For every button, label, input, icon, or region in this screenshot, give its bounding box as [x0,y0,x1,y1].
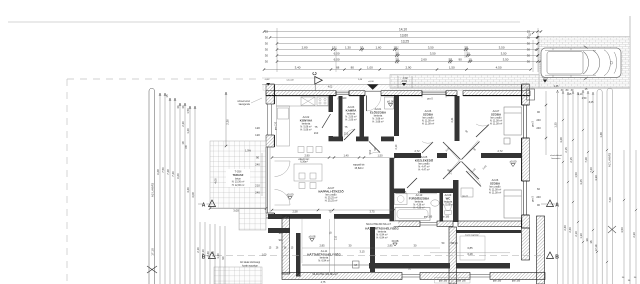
svg-text:N: 1,06 m²: N: 1,06 m² [442,204,453,207]
svg-text:240: 240 [255,163,260,167]
sidewalk paving strip [390,75,539,88]
entrance threshold [365,91,381,93]
section line A stub [198,203,214,205]
svg-text:6,60: 6,60 [176,173,180,179]
level marker entrance [388,104,392,107]
svg-text:6,36m²: 6,36m² [300,161,308,164]
svg-text:30: 30 [265,36,269,40]
svg-text:3,08: 3,08 [191,192,195,198]
svg-text:1,30: 1,30 [345,46,351,50]
svg-text:2,10: 2,10 [201,249,205,255]
property boundary dashed vertical [66,79,68,284]
entrance door leaf and swing [366,96,368,112]
svg-text:17,10: 17,10 [594,244,598,251]
wing partition vertical 1 [296,233,301,277]
svg-text:2,90: 2,90 [405,66,411,70]
svg-text:7,28: 7,28 [584,157,588,163]
svg-text:68: 68 [184,145,188,149]
svg-text:±0,08: ±0,08 [309,234,316,238]
svg-text:1,50: 1,50 [377,153,383,157]
svg-text:2,30: 2,30 [632,232,636,238]
svg-text:pan 180: pan 180 [493,281,502,283]
svg-text:2,10: 2,10 [196,247,200,253]
washbasin bathroom [431,200,439,206]
svg-text:2,72: 2,72 [414,149,420,153]
pre0 window inner ticks top [421,96,423,98]
car body [541,46,621,80]
svg-text:T-03/I: T-03/I [235,170,242,174]
wall kamra west [339,96,343,141]
svg-text:H: 3,68 m²: H: 3,68 m² [372,121,383,124]
level marker wing2 [393,243,397,246]
wing partition vertical 3 hatched [449,227,457,284]
svg-text:7,28: 7,28 [608,197,612,203]
kitchen stove [317,97,328,106]
right cluster ticks [562,161,564,163]
svg-text:90: 90 [459,58,463,62]
svg-text:A2 LAKÁS: A2 LAKÁS [150,183,154,197]
property boundary dashed horizontal [67,78,262,80]
bottom rooms pan labels [435,278,452,284]
svg-text:2,41: 2,41 [451,117,454,122]
wall between top bedrooms [455,96,460,141]
right cluster balloon caps [597,89,602,284]
hub door X leaves [443,142,461,160]
svg-text:3,50: 3,50 [501,52,507,56]
svg-text:1,35: 1,35 [554,85,559,88]
svg-text:1,20: 1,20 [186,128,190,134]
svg-text:A: A [202,203,206,209]
svg-text:3,25: 3,25 [579,179,583,185]
bath dim row [396,193,437,195]
top dimension chain row4 [277,49,536,51]
wing west step walls [268,214,282,219]
svg-text:30: 30 [265,42,269,46]
svg-text:pre 0: pre 0 [462,195,468,198]
svg-text:2,72: 2,72 [497,149,503,153]
svg-text:120: 120 [255,126,260,130]
terrace bottom dim line [210,208,266,210]
level marker -0.02 parking [543,80,547,83]
svg-text:sávszél: sávszél [286,79,294,81]
inner right dim line [545,91,547,155]
right wall lower continuation [522,228,530,260]
fridge [278,108,289,119]
svg-text:14,10: 14,10 [399,28,407,32]
svg-text:pan 180: pan 180 [441,217,450,219]
level marker wing1 [310,239,314,242]
left dim vertical lines [159,93,161,284]
door leaf bottom szoba [466,171,481,187]
top dimension chain 13.25 [277,43,538,45]
svg-text:1,35: 1,35 [554,122,558,128]
level marker -0.02 left [402,83,406,86]
svg-text:10: 10 [468,58,472,62]
svg-text:H: 11,38 m²: H: 11,38 m² [490,123,503,126]
right dim outer lines [623,150,625,284]
entrance arrow [367,84,379,90]
svg-text:210: 210 [335,235,338,240]
door konyha leaf [322,114,331,128]
inner dim line 2.36 [225,92,227,146]
left dim X mark [147,266,157,273]
wall eloszoba-szoba [394,96,399,136]
outer wall right band [522,84,530,105]
svg-text:AC lakás közösségi: AC lakás közösségi [240,261,261,264]
svg-text:15,82m²: 15,82m² [354,167,363,170]
svg-text:36: 36 [176,105,180,109]
dining chairs top row [298,147,304,153]
svg-text:2,40: 2,40 [206,251,210,257]
left dim balloon band [149,88,155,284]
level marker right wall [511,164,515,167]
dim ticks above entrance [397,76,399,88]
svg-text:B: B [555,255,559,261]
svg-text:-0,02: -0,02 [402,77,408,80]
svg-text:H: 11,38 m²: H: 11,38 m² [489,192,502,195]
wing inner south wall [369,263,450,269]
svg-text:szüvet konci: szüvet konci [237,100,250,103]
svg-text:1,50: 1,50 [574,172,578,178]
svg-text:N: 6,94 m²: N: 6,94 m² [318,260,329,263]
terrace door slide [265,147,267,213]
parking paving bricks [539,37,630,88]
svg-text:2,10: 2,10 [574,231,578,237]
corridor guide lines [393,158,395,188]
svg-text:1,30: 1,30 [579,233,583,239]
svg-text:4,00: 4,00 [214,178,218,184]
svg-text:15: 15 [265,30,269,34]
svg-text:kivezetés: kivezetés [551,157,561,160]
kitchen counter top [277,96,329,106]
svg-text:2,80: 2,80 [302,46,308,50]
terrace door left wall [267,147,269,213]
svg-text:30: 30 [527,60,531,64]
svg-text:3,15: 3,15 [359,250,365,254]
wing outer south wall hatched [282,273,402,280]
svg-text:7,20: 7,20 [171,171,175,177]
svg-text:3,40: 3,40 [295,66,301,70]
svg-text:30: 30 [527,54,531,58]
svg-text:H: 11,38 m²: H: 11,38 m² [422,123,435,126]
paving curb line [390,87,630,89]
svg-text:pan 180: pan 180 [424,217,433,219]
svg-text:2,90: 2,90 [304,153,310,157]
svg-text:±0,00: ±0,00 [510,159,517,163]
svg-text:210: 210 [255,184,260,188]
wing interior lines [301,219,303,263]
insulation strip above top wall [263,85,530,90]
svg-text:30: 30 [265,60,269,64]
svg-text:7,20: 7,20 [589,167,593,173]
svg-text:SILKA HML300 NF+GT: SILKA HML300 NF+GT [366,223,391,226]
svg-text:1,50: 1,50 [186,108,190,114]
svg-text:2,40: 2,40 [568,227,572,233]
outer wall top band [266,91,336,96]
svg-text:2,15: 2,15 [564,147,568,153]
wall hub east to right wall [481,153,522,158]
svg-text:kavégende: kavégende [239,104,251,106]
svg-text:pro 0: pro 0 [532,121,535,127]
svg-text:3,50: 3,50 [620,227,624,233]
svg-text:4,50: 4,50 [496,66,502,70]
dresser szoba2 [461,188,473,197]
svg-text:AZ LAKÁS: AZ LAKÁS [608,153,612,167]
corner level marker [267,83,270,86]
bed szoba2 [504,190,522,218]
svg-text:1,40: 1,40 [343,153,349,157]
dining table [294,164,322,181]
svg-text:13,25: 13,25 [401,40,409,44]
svg-text:80: 80 [351,66,355,70]
wing door frame lines [329,219,331,272]
wing partition vertical 2 [370,227,375,272]
top dimension chain row7 [264,69,531,71]
door szoba1 swing [422,142,433,153]
level marker terrace vicinity [288,197,292,200]
terrace grid paving [210,141,266,208]
svg-text:6,85: 6,85 [467,246,473,250]
svg-text:30: 30 [585,238,589,241]
svg-text:1,60: 1,60 [376,46,382,50]
terrace door leaves arcs [275,161,291,177]
wall szoba south / hub west [394,153,421,158]
nightstand szoba1 [504,138,510,144]
dining chairs bottom row [299,183,305,189]
svg-text:SILKA HML 300 NF+GT: SILKA HML 300 NF+GT [312,273,338,276]
svg-text:36: 36 [181,105,185,109]
wall hub-szoba2 vertical [453,180,459,222]
svg-text:1,5%: 1,5% [245,149,252,153]
svg-text:240: 240 [536,126,541,130]
wall kamra-eloszoba [360,96,365,141]
silka wall note 1 [359,221,398,226]
svg-text:-0,02: -0,02 [265,79,271,81]
svg-text:1,00: 1,00 [262,254,267,257]
outer wall left band [266,84,274,104]
wc toilet [445,202,451,210]
svg-text:90: 90 [256,156,260,160]
svg-text:240: 240 [255,191,260,195]
svg-text:pre 120: pre 120 [275,121,278,130]
svg-text:2,30: 2,30 [181,121,185,127]
section line B dashed [204,255,545,257]
svg-text:kazán egysége: kazán egysége [242,265,258,267]
living room south wall [268,214,321,219]
svg-text:3,28: 3,28 [559,137,563,143]
svg-text:120: 120 [255,133,260,137]
svg-text:6,68: 6,68 [156,169,160,175]
eaves line above house [262,84,530,86]
wall furdoszoba north [394,189,405,194]
svg-text:3,50: 3,50 [499,46,505,50]
kitchen sink [301,97,315,106]
svg-text:210: 210 [314,131,319,135]
svg-text:3,50: 3,50 [503,58,509,62]
top dimension chain row5 [277,55,538,57]
left dim bottom short lines [199,222,201,284]
top dimension chain row6 [277,61,540,63]
svg-text:H: 4,38 m²: H: 4,38 m² [413,207,424,210]
svg-text:2,70: 2,70 [450,169,453,174]
svg-text:4,20: 4,20 [186,187,190,193]
svg-text:3,00: 3,00 [233,209,239,213]
interior dim row kitchen [272,157,395,159]
right dim X mark [608,226,616,233]
svg-text:1,00: 1,00 [367,66,373,70]
svg-text:68: 68 [336,66,340,70]
svg-text:6,00: 6,00 [334,52,340,56]
svg-text:H: 2,06 m²: H: 2,06 m² [345,119,356,122]
svg-text:2,10: 2,10 [395,144,398,149]
svg-text:kazán egysége: kazán egysége [465,234,479,236]
plot edge right vertical [629,16,631,284]
svg-text:13,60: 13,60 [400,34,408,38]
wing east wall hatched [537,216,545,284]
bed szoba1 [504,107,522,135]
svg-text:10: 10 [449,58,453,62]
svg-text:2,40: 2,40 [563,225,567,231]
svg-text:pro 0: pro 0 [427,98,433,101]
right cluster corner box [527,89,535,100]
right dim vertical lines [557,90,559,284]
bathtub [395,208,430,221]
svg-text:2,36: 2,36 [225,119,229,125]
svg-text:±0,08: ±0,08 [392,239,399,243]
svg-text:1,50: 1,50 [582,97,587,100]
svg-text:H: 5,08 m²: H: 5,08 m² [300,129,311,132]
left wall window [267,104,269,135]
svg-text:2,15: 2,15 [569,157,573,163]
svg-text:18: 18 [181,141,185,145]
svg-text:240: 240 [536,118,541,122]
svg-text:C: C [313,71,319,75]
svg-text:2,60: 2,60 [421,58,427,62]
svg-text:30: 30 [527,48,531,52]
right wall windows [522,105,524,138]
svg-text:30: 30 [265,48,269,52]
svg-text:1,50: 1,50 [449,66,455,70]
svg-text:pro 0: pro 0 [532,196,535,202]
kitchen counter left [277,106,290,146]
road edge line [8,21,520,23]
svg-text:3,25: 3,25 [589,101,594,104]
svg-text:4,02: 4,02 [328,87,333,89]
M box [353,261,360,268]
svg-text:3,30: 3,30 [594,175,598,181]
eloszoba cabinet [385,97,394,109]
svg-text:17,10: 17,10 [150,248,154,256]
svg-text:±0,00: ±0,00 [287,192,294,196]
svg-text:2,85: 2,85 [319,244,325,248]
svg-text:15: 15 [332,46,336,50]
svg-text:1,30: 1,30 [216,253,220,259]
top dimension chain 13.60 [270,37,538,39]
wall furdoszoba west [390,158,395,222]
bottom-left paving patch [214,267,262,284]
top dimension chain 14.10 [264,31,541,33]
svg-text:6,00: 6,00 [334,58,340,62]
door furdoszoba leaf [407,178,417,188]
svg-text:10: 10 [394,46,398,50]
terrace step grid [239,209,266,231]
svg-text:30: 30 [527,42,531,46]
svg-text:pan 180: pan 180 [457,281,466,283]
wall below kamra/eloszoba [329,137,344,142]
svg-text:H: 6,94 m²: H: 6,94 m² [376,237,387,240]
svg-text:15: 15 [165,94,169,98]
svg-text:30: 30 [265,54,269,58]
wall bath south exterior [394,221,420,227]
svg-text:240: 240 [536,195,541,199]
washing machine [395,194,408,205]
svg-text:pan 180: pan 180 [439,281,448,283]
svg-text:H: 4,47 m²: H: 4,47 m² [418,169,429,172]
svg-text:1,10: 1,10 [578,93,583,96]
svg-text:7,50: 7,50 [161,167,165,173]
svg-text:elszívókürtő: elszívókürtő [550,154,562,157]
svg-text:7,28: 7,28 [166,169,170,175]
top dim vertical connectors [537,28,539,72]
svg-text:2,40: 2,40 [211,251,215,257]
terrace label box [226,169,250,187]
svg-text:3,50: 3,50 [430,52,436,56]
door kamra leaf [344,129,355,140]
window lines top wall gaps [336,91,349,93]
svg-text:A: A [555,203,559,209]
door eloszoba-nappali leaf [369,142,380,153]
svg-text:H: 25,25 m²: H: 25,25 m² [325,200,338,203]
svg-text:3,50: 3,50 [428,46,434,50]
door leaf right top szoba [476,125,489,138]
svg-text:pan 120: pan 120 [338,97,347,100]
svg-text:36: 36 [589,240,593,243]
svg-text:2,85: 2,85 [387,244,393,248]
svg-text:90: 90 [221,256,225,260]
svg-text:1,35: 1,35 [402,192,407,194]
svg-text:pan 180: pan 180 [512,281,521,283]
svg-text:±0,00: ±0,00 [368,81,374,83]
svg-text:H: 12,96 m²: H: 12,96 m² [232,184,245,187]
wall konyha-kamra [329,96,334,112]
wall furdo-wc [440,193,444,222]
wing west wall hatched [282,216,290,274]
svg-text:1,48: 1,48 [599,132,603,138]
wing room top walls lower right [456,230,521,233]
